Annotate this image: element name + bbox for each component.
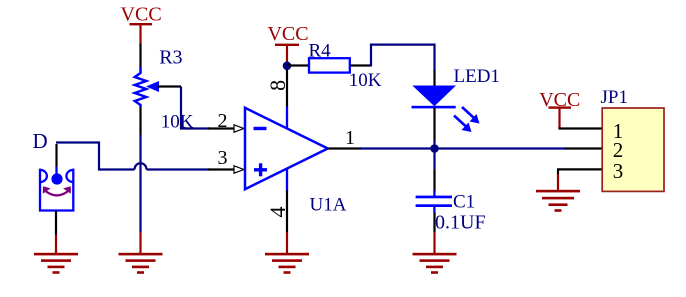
svg-text:4: 4 xyxy=(265,207,290,218)
svg-text:2: 2 xyxy=(218,110,228,132)
svg-text:LED1: LED1 xyxy=(454,66,500,87)
wire C1 to ground xyxy=(433,213,435,233)
wire JP1 pin 2 stub xyxy=(565,147,603,149)
wire R4 to LED1 anode xyxy=(351,45,435,86)
wire node to C1 xyxy=(433,149,435,193)
wire LED1 cathode to node xyxy=(433,108,435,149)
svg-text:JP1: JP1 xyxy=(601,87,628,108)
wire output node to JP1 pin 2 xyxy=(360,147,566,149)
svg-text:0.1UF: 0.1UF xyxy=(435,211,486,233)
pin 8 of U1A (V+) xyxy=(265,62,290,128)
svg-text:VCC: VCC xyxy=(267,23,308,45)
ground (below C1) xyxy=(413,232,457,274)
svg-text:C1: C1 xyxy=(453,192,475,213)
node junction LED/C1/output xyxy=(430,144,439,153)
capacitor C1 xyxy=(416,191,452,214)
resistor R4 xyxy=(309,58,350,72)
ground (below R3) xyxy=(119,232,163,274)
wire VCC to R3 top xyxy=(139,44,141,69)
resistor R3 (potentiometer) xyxy=(135,67,159,107)
pin 1 of U1A (output wire) xyxy=(328,127,362,149)
svg-text:R3: R3 xyxy=(159,47,182,69)
wire hop over pot wire xyxy=(135,163,147,169)
wire sensor D to ground xyxy=(55,211,57,235)
power VCC supply for U1A / R4 xyxy=(267,23,308,62)
svg-text:3: 3 xyxy=(218,147,228,169)
wire R3 wiper to op-amp pin 2 xyxy=(157,87,210,129)
svg-text:D: D xyxy=(33,129,48,153)
svg-text:U1A: U1A xyxy=(310,195,347,216)
svg-text:8: 8 xyxy=(265,80,290,91)
node junction VCC/R4/pin8 xyxy=(283,62,292,71)
ground (below U1A pin 4) xyxy=(265,232,309,274)
svg-text:VCC: VCC xyxy=(121,3,162,25)
ground (below sensor D) xyxy=(34,235,78,274)
sensor D (tilt switch) xyxy=(40,144,73,211)
pin 3 of U1A xyxy=(208,147,244,173)
power VCC supply for R3 xyxy=(121,3,162,43)
svg-text:1: 1 xyxy=(345,127,355,149)
ground (below JP1 pin 3) xyxy=(536,190,580,212)
wire D sensor to op-amp pin 3 xyxy=(56,143,210,170)
wire JP1 pin 3 to ground xyxy=(557,169,603,190)
wire VCC to JP1 pin 1 xyxy=(558,127,602,129)
LED LED1 xyxy=(412,86,480,133)
connector JP1 xyxy=(602,108,664,191)
wire pot bottom to ground xyxy=(139,107,141,232)
wire junction to R4 xyxy=(287,64,308,66)
svg-text:R4: R4 xyxy=(309,41,332,62)
op-amp U1A xyxy=(245,108,328,189)
svg-text:10K: 10K xyxy=(349,70,382,91)
pin 4 of U1A (V-) xyxy=(265,169,290,232)
svg-text:3: 3 xyxy=(613,159,624,183)
power VCC supply for JP1 pin 1 xyxy=(539,89,580,129)
pin 2 of U1A xyxy=(208,110,244,132)
